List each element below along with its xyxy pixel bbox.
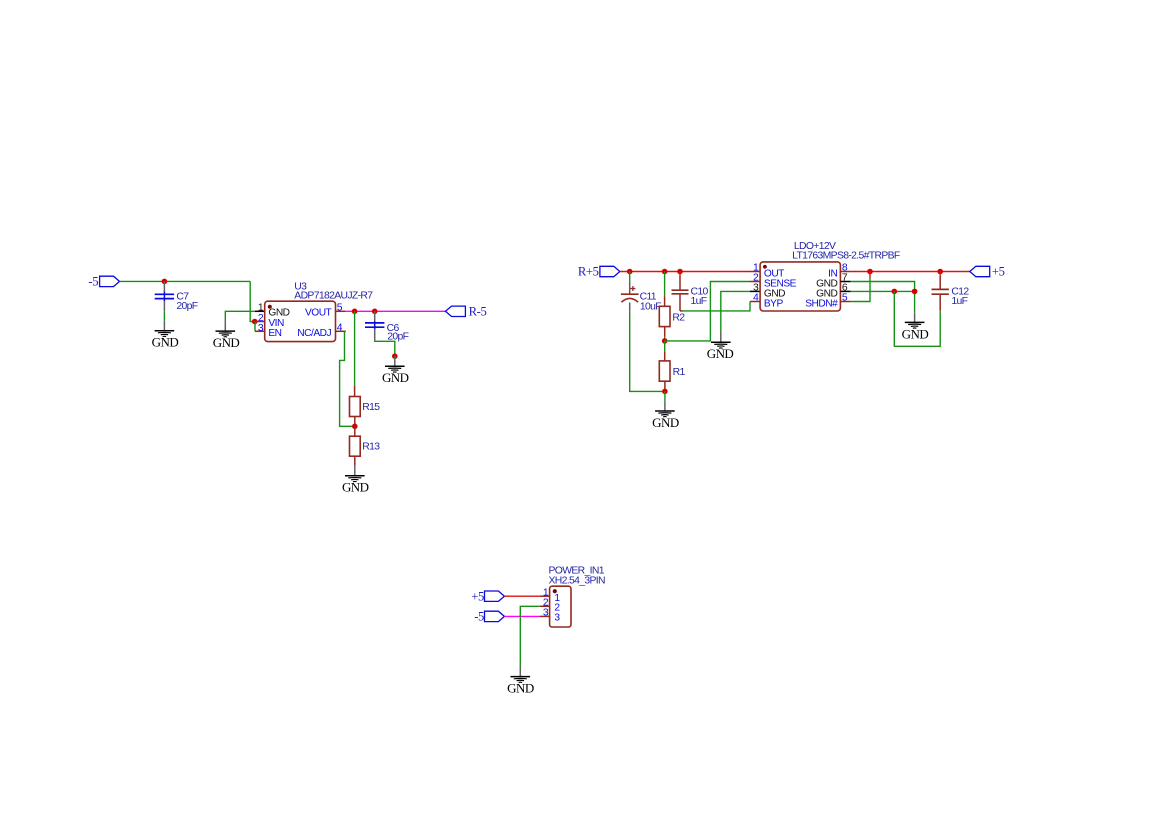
svg-text:SHDN#: SHDN#: [805, 299, 838, 310]
svg-text:20pF: 20pF: [176, 301, 197, 312]
svg-text:1uF: 1uF: [691, 296, 707, 307]
svg-text:1uF: 1uF: [951, 296, 967, 307]
U3 pin-1 marker: [268, 305, 272, 309]
net port +5 (bottom input): [485, 591, 505, 601]
wire C11 to R1 bottom node: [630, 311, 665, 391]
wire NC/ADJ to R15/R13 node: [340, 331, 355, 426]
svg-text:R15: R15: [362, 402, 380, 413]
capacitor C6: [374, 311, 376, 321]
wire R+5 to IN rail: [620, 271, 750, 273]
junction at VIN pin: [252, 319, 258, 325]
LDO pin 8 line: [840, 271, 850, 273]
junction at SHDN tie: [867, 269, 873, 275]
ground GND (at LDO pin 3): [720, 332, 722, 342]
svg-text:+5: +5: [992, 265, 1005, 279]
junction R2/R1/SENSE: [662, 338, 668, 344]
svg-text:R2: R2: [672, 312, 685, 323]
wire -5 to pin 3: [504, 615, 540, 617]
ground GND (under C7): [163, 321, 165, 331]
LDO pin 5 line: [840, 301, 850, 303]
svg-text:10uF: 10uF: [640, 302, 661, 313]
wire -5 node down to pin 2: [250, 281, 255, 321]
LDO pin 6 line: [840, 290, 850, 292]
svg-text:GND: GND: [342, 480, 369, 495]
LDO pin 4 line: [750, 301, 760, 303]
resistor R15: [354, 386, 356, 397]
wire R2 to node: [664, 337, 666, 341]
wire ground loop to C12: [894, 291, 940, 346]
connector pin-1 marker: [553, 589, 557, 593]
svg-text:GND: GND: [507, 681, 534, 696]
svg-text:XH2.54_3PIN: XH2.54_3PIN: [549, 575, 606, 586]
connector POWER_IN1 body: [550, 586, 571, 627]
wire C6 to ground: [375, 341, 395, 357]
ground GND (at U3 pin 1): [224, 321, 226, 331]
U3 pin 4 line: [336, 330, 346, 332]
svg-text:GND: GND: [652, 415, 679, 430]
connector pin 1 line: [540, 595, 550, 597]
svg-text:3: 3: [554, 612, 560, 623]
junction at R2: [662, 269, 668, 275]
capacitor C12: [939, 295, 941, 311]
svg-text:NC/ADJ: NC/ADJ: [297, 328, 331, 339]
wire C7 to ground: [163, 311, 165, 321]
svg-text:GND: GND: [152, 335, 179, 350]
wire VOUT to R-5 (net R-5): [346, 310, 446, 312]
wire GND pin 3 to ground: [721, 291, 750, 332]
wire -5 to VIN node: [120, 280, 251, 282]
svg-text:3: 3: [543, 608, 549, 619]
svg-text:4: 4: [753, 293, 759, 304]
ground GND (under R1): [664, 391, 666, 401]
wire ground to U3 pin 1: [225, 311, 255, 321]
svg-text:BYP: BYP: [764, 299, 784, 310]
net port -5 (input): [100, 276, 120, 286]
junction at C6 ground: [392, 353, 398, 359]
ground GND (connector): [519, 666, 521, 676]
LDO pin-1 marker: [763, 265, 767, 269]
ground GND (under R13): [354, 466, 356, 476]
svg-text:GND: GND: [902, 326, 929, 341]
svg-text:GND: GND: [382, 370, 409, 385]
net port R-5 (output): [446, 306, 466, 316]
svg-text:VOUT: VOUT: [305, 308, 332, 319]
ground GND (at LDO pin 7): [914, 312, 916, 322]
wire +5 to pin 1: [504, 595, 540, 597]
capacitor C10: [679, 272, 681, 277]
junction R1 ground: [662, 389, 668, 395]
junction at C7: [162, 279, 168, 285]
svg-text:GND: GND: [213, 335, 240, 350]
U3 pin 5 line: [336, 310, 346, 312]
svg-text:LT1763MPS8-2.5#TRPBF: LT1763MPS8-2.5#TRPBF: [792, 251, 900, 262]
wire pin 7 to ground: [851, 282, 915, 313]
junction R15/R13: [352, 424, 358, 430]
svg-text:GND: GND: [707, 346, 734, 361]
LDO pin 1 line: [750, 271, 760, 273]
U3 pin 1 line: [255, 310, 265, 312]
connector pin 2 line: [540, 605, 550, 607]
LDO pin 7 line: [840, 281, 850, 283]
svg-text:-5: -5: [474, 610, 484, 624]
svg-text:EN: EN: [268, 328, 281, 339]
junction at C12: [937, 269, 943, 275]
op-amp U3 body: [265, 301, 336, 341]
ground GND (under C6): [394, 356, 396, 366]
capacitor C11 (polarized): [629, 272, 631, 282]
connector pin 3 line: [540, 615, 550, 617]
svg-text:R+5: R+5: [578, 265, 599, 279]
svg-text:3: 3: [258, 323, 264, 334]
junction C12 ground branch: [892, 289, 898, 295]
junction at C6: [372, 309, 378, 315]
junction at R15 tap: [352, 309, 358, 315]
wire ground to pin 2: [520, 606, 540, 666]
resistor R13: [354, 426, 356, 436]
wire IN tie to SHDN#: [869, 272, 871, 278]
junction pin6/pin7: [912, 289, 918, 295]
svg-text:ADP7182AUJZ-R7: ADP7182AUJZ-R7: [294, 290, 373, 301]
wire IN to +5: [851, 271, 970, 273]
LDO pin 3 line: [750, 290, 760, 292]
wire C10 to BYP: [683, 302, 751, 311]
svg-text:+5: +5: [471, 589, 484, 603]
U3 pin 3 line: [255, 330, 265, 332]
U3 pin 2 line: [255, 321, 266, 323]
LDO pin 2 line: [750, 281, 760, 283]
wire EN tie to VIN: [254, 322, 256, 332]
net port +5 (output): [970, 266, 990, 276]
svg-text:R-5: R-5: [469, 305, 487, 319]
wire SENSE to node: [665, 282, 750, 341]
capacitor C7: [163, 281, 165, 291]
wire VOUT down to R15: [354, 311, 356, 386]
net port -5 (bottom input): [485, 611, 505, 621]
wire pin 6 to ground net: [851, 290, 915, 292]
junction at C10: [677, 269, 683, 275]
svg-text:R1: R1: [673, 367, 686, 378]
resistor R1: [664, 341, 666, 351]
LDO U body LT1763: [760, 262, 840, 311]
svg-text:4: 4: [337, 323, 343, 334]
resistor R2: [664, 272, 666, 297]
svg-text:-5: -5: [88, 275, 98, 289]
junction at C11: [627, 269, 633, 275]
net port R+5 (input): [600, 266, 620, 276]
svg-text:R13: R13: [362, 442, 380, 453]
